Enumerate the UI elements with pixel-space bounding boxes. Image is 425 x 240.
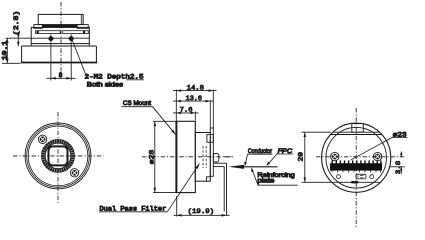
label FPC	[267, 148, 294, 166]
dimension 10.1	[1, 38, 8, 63]
front outer circle 1	[25, 123, 91, 189]
centerline top view	[60, 2, 62, 78]
svg-text:CS Mount: CS Mount	[123, 100, 151, 107]
rear screw left	[331, 152, 339, 160]
svg-text:ø28: ø28	[149, 150, 156, 165]
bottom black bar	[351, 181, 358, 183]
rear centerlines	[224, 108, 406, 227]
screw left top view	[48, 34, 53, 43]
knurled ring	[42, 139, 75, 172]
chord top lines	[331, 132, 382, 134]
rear inner circle	[326, 127, 387, 188]
svg-text:(19.9): (19.9)	[188, 208, 215, 215]
top plate dark band	[42, 25, 77, 27]
connector strip	[330, 160, 382, 170]
svg-text:13.6: 13.6	[186, 95, 202, 102]
right slot pin	[83, 31, 85, 34]
dimension (19.9)	[174, 196, 230, 217]
front outer circle 2	[27, 125, 90, 188]
dimension 3.8	[390, 152, 405, 175]
small circle right	[370, 175, 374, 179]
seam line through screws	[6, 37, 90, 39]
dimension dia28	[149, 121, 177, 192]
svg-text:(2.8): (2.8)	[13, 11, 20, 36]
label Reinforcing plate	[251, 167, 298, 185]
lens mount body	[176, 121, 195, 192]
lens cap body	[38, 14, 83, 24]
strip lower ticks	[332, 171, 381, 173]
svg-text:7.6: 7.6	[180, 107, 193, 114]
front outer circle 3	[28, 126, 88, 186]
label Conductor	[244, 148, 272, 166]
svg-text:plate: plate	[257, 178, 274, 185]
hidden filter dashed	[203, 146, 206, 168]
svg-text:Both sides: Both sides	[87, 82, 124, 89]
label dia23	[351, 131, 408, 160]
top clamp	[207, 135, 213, 143]
front screw lower-right	[70, 169, 78, 177]
right slot	[63, 31, 88, 34]
svg-text:3.8: 3.8	[395, 161, 402, 175]
label 2-M2 Depth2.5	[85, 74, 145, 81]
svg-text:20: 20	[298, 152, 305, 162]
bottom plate line	[332, 181, 380, 183]
rear outer circle	[322, 123, 391, 192]
dimension 7.6	[173, 90, 199, 122]
label CS Mount	[122, 100, 176, 134]
top plate right tab	[77, 25, 88, 29]
upper housing block	[31, 27, 89, 43]
left slot	[36, 31, 61, 34]
fpc pull arrow	[229, 165, 278, 169]
screw right top view	[69, 34, 74, 43]
connector tab section	[213, 154, 219, 163]
front view centerlines	[13, 112, 104, 203]
pcb plate	[210, 128, 213, 176]
leader 2-M2	[72, 40, 87, 77]
front screw upper-left	[38, 135, 46, 143]
label Dual Pass Filter	[99, 164, 200, 213]
dimension (2.8)	[13, 11, 20, 47]
fpc ribbon section	[213, 163, 226, 215]
rear screw right	[373, 152, 381, 160]
section centerline	[142, 156, 233, 158]
svg-text:10.1: 10.1	[1, 40, 8, 60]
svg-text:8: 8	[59, 72, 63, 79]
svg-text:14.8: 14.8	[187, 84, 205, 91]
dimension 13.6	[173, 95, 214, 128]
sensor window rounded square	[49, 146, 68, 165]
left slot pin	[37, 31, 39, 34]
top plate left tab	[34, 25, 43, 29]
extension line bottom left	[2, 62, 21, 64]
dimension 8	[47, 43, 76, 80]
small circle left	[337, 175, 341, 179]
marking box	[356, 174, 366, 179]
top bump	[352, 124, 364, 133]
base block	[21, 44, 97, 63]
dimension 20	[298, 132, 332, 182]
dimension 14.8	[173, 84, 217, 128]
step notch bottom	[206, 177, 210, 181]
housing block section	[195, 133, 210, 182]
